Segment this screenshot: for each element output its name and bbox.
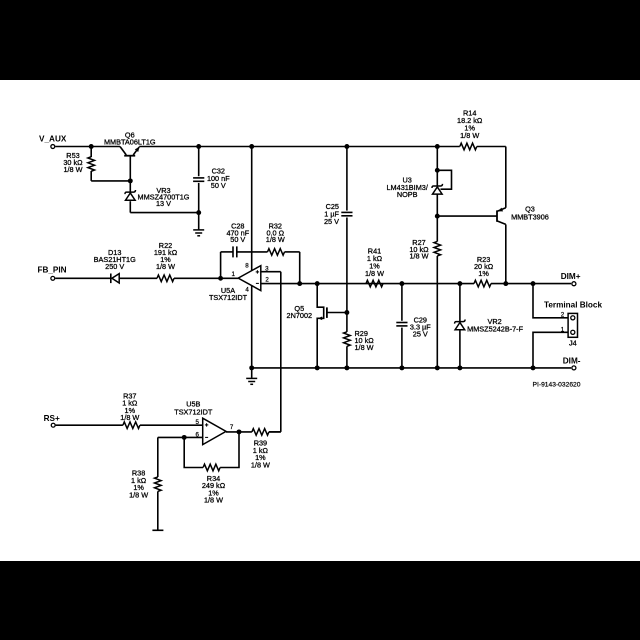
svg-text:NOPB: NOPB bbox=[397, 190, 418, 199]
svg-text:DIM+: DIM+ bbox=[561, 272, 581, 281]
svg-text:2: 2 bbox=[561, 311, 565, 318]
svg-text:1/8 W: 1/8 W bbox=[129, 490, 148, 499]
svg-text:2N7002: 2N7002 bbox=[287, 311, 313, 320]
svg-text:MMBT3906: MMBT3906 bbox=[511, 213, 549, 222]
svg-text:PI-9143-032620: PI-9143-032620 bbox=[533, 381, 581, 388]
svg-text:7: 7 bbox=[230, 424, 234, 431]
svg-text:1/8 W: 1/8 W bbox=[63, 165, 82, 174]
svg-text:6: 6 bbox=[195, 432, 199, 439]
svg-text:1: 1 bbox=[231, 271, 235, 278]
svg-text:1/8 W: 1/8 W bbox=[120, 413, 139, 422]
svg-text:1/8 W: 1/8 W bbox=[156, 262, 175, 271]
svg-text:2: 2 bbox=[265, 277, 269, 284]
svg-text:5: 5 bbox=[195, 419, 199, 426]
svg-text:50 V: 50 V bbox=[211, 181, 226, 190]
svg-text:1/8 W: 1/8 W bbox=[251, 461, 270, 470]
svg-text:25 V: 25 V bbox=[324, 217, 339, 226]
svg-text:4: 4 bbox=[245, 287, 249, 294]
svg-text:DIM-: DIM- bbox=[563, 357, 581, 366]
svg-text:TSX712IDT: TSX712IDT bbox=[174, 408, 213, 417]
svg-text:MMSZ5242B-7-F: MMSZ5242B-7-F bbox=[467, 325, 523, 334]
svg-text:RS+: RS+ bbox=[44, 414, 60, 423]
svg-text:50 V: 50 V bbox=[230, 235, 245, 244]
svg-text:TSX712IDT: TSX712IDT bbox=[209, 293, 248, 302]
svg-text:1/8 W: 1/8 W bbox=[365, 269, 384, 278]
svg-text:1/8 W: 1/8 W bbox=[204, 496, 223, 505]
svg-text:V_AUX: V_AUX bbox=[39, 134, 67, 143]
svg-text:1: 1 bbox=[561, 326, 565, 333]
svg-text:FB_PIN: FB_PIN bbox=[37, 265, 66, 274]
svg-text:1/8 W: 1/8 W bbox=[266, 235, 285, 244]
svg-text:3: 3 bbox=[265, 265, 269, 272]
svg-text:MMBTA06LT1G: MMBTA06LT1G bbox=[104, 137, 156, 146]
svg-text:8: 8 bbox=[245, 263, 249, 270]
svg-text:1/8 W: 1/8 W bbox=[355, 343, 374, 352]
svg-text:1/8 W: 1/8 W bbox=[460, 131, 479, 140]
svg-text:13 V: 13 V bbox=[156, 199, 171, 208]
svg-text:J4: J4 bbox=[569, 338, 577, 347]
svg-text:25 V: 25 V bbox=[413, 329, 428, 338]
svg-text:Terminal Block: Terminal Block bbox=[544, 300, 603, 309]
svg-text:1%: 1% bbox=[478, 269, 489, 278]
svg-text:250 V: 250 V bbox=[105, 262, 124, 271]
svg-text:1/8 W: 1/8 W bbox=[409, 252, 428, 261]
